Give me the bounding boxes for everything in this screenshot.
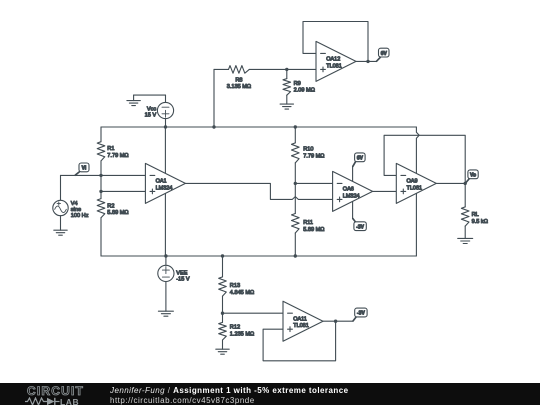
label Vcc value — [145, 106, 157, 118]
node junction R11 on rail — [294, 254, 297, 257]
wire node to OA12 plus input — [287, 68, 316, 70]
svg-text:TL081: TL081 — [407, 185, 423, 191]
svg-text:R13: R13 — [230, 283, 240, 289]
label RL value — [472, 212, 488, 225]
wire OA1 output to OA6 plus input with hop over R10/R11 column — [185, 183, 332, 199]
node junction Vcc/rail/OA1 V+ — [164, 125, 167, 128]
svg-text:OA11: OA11 — [293, 317, 307, 323]
wire Vi node from V4 to OA1 minus input — [61, 174, 146, 176]
resistor R10 — [292, 127, 300, 183]
svg-text:R8: R8 — [235, 77, 242, 83]
svg-text:-3V: -3V — [357, 311, 365, 317]
node flag -3V at OA6 V- pin — [353, 219, 367, 231]
svg-text:LM324: LM324 — [156, 185, 173, 191]
label R8 value — [227, 77, 251, 90]
resistor RL — [461, 183, 469, 238]
ground below RL — [458, 238, 473, 243]
node junction OA9 output/feedback/RL — [464, 182, 467, 185]
label R1 value — [107, 146, 128, 159]
node flag Vo at OA9 output — [465, 170, 478, 183]
node junction R13/R12/OA11- — [221, 312, 224, 315]
footer banner — [0, 383, 540, 405]
svg-text:Vi: Vi — [82, 166, 87, 172]
wire OA6 V+ pin stub — [352, 166, 354, 181]
wire OA12 feedback loop — [303, 22, 368, 62]
label V4 value — [71, 201, 89, 219]
wire OA9 output to Vo node — [436, 182, 465, 184]
svg-text:7.79 MΩ: 7.79 MΩ — [107, 153, 128, 159]
svg-text:OA6: OA6 — [343, 187, 354, 193]
svg-text:7.79 MΩ: 7.79 MΩ — [303, 153, 324, 159]
ground below R12 — [216, 349, 229, 354]
label R9 value — [294, 81, 315, 94]
svg-text:15 V: 15 V — [145, 112, 157, 118]
ground left of Vcc — [127, 95, 140, 106]
wire OA12 output — [356, 60, 377, 62]
op-amp OA9 TL081 — [396, 163, 436, 203]
svg-text:3.135 MΩ: 3.135 MΩ — [227, 84, 251, 90]
svg-text:-15 V: -15 V — [176, 276, 190, 282]
resistor R8 — [214, 66, 249, 74]
svg-text:R9: R9 — [294, 81, 301, 87]
node flag -3V at OA11 output — [353, 308, 367, 321]
voltage source VEE -15 V — [158, 256, 174, 311]
resistor R12 — [219, 313, 227, 349]
svg-text:R2: R2 — [107, 203, 114, 209]
CircuitLab logo wordmark — [27, 384, 97, 398]
node junction R8/R9/OA12+ — [285, 68, 288, 71]
resistor R11 — [292, 183, 300, 256]
footer url text — [110, 396, 255, 405]
svg-text:5.89 MΩ: 5.89 MΩ — [303, 227, 324, 233]
wire R8 to R9/OA12 node — [249, 68, 286, 70]
svg-text:TL081: TL081 — [293, 323, 309, 329]
label R13 value — [230, 283, 254, 296]
footer title text — [110, 386, 349, 395]
svg-text:6V: 6V — [357, 156, 364, 162]
svg-text:5.89 MΩ: 5.89 MΩ — [107, 210, 128, 216]
wire OA6 minus input from R10/R11 junction — [295, 182, 332, 184]
wire R13/R12 junction to OA11 minus input — [223, 312, 284, 314]
op-amp OA12 TL081 — [316, 41, 356, 81]
node junction R10 on rail — [294, 125, 297, 128]
svg-text:9.5 kΩ: 9.5 kΩ — [472, 219, 488, 225]
svg-text:Vo: Vo — [470, 173, 476, 179]
svg-text:OA1: OA1 — [156, 179, 167, 185]
svg-text:4.845 MΩ: 4.845 MΩ — [230, 290, 254, 296]
wire OA6 V- pin stub — [352, 201, 354, 218]
node flag Vi — [75, 163, 89, 175]
wire OA11 output — [323, 320, 353, 322]
op-amp OA11 TL081 — [283, 301, 323, 341]
CircuitLab logo resistor/diode glyph and LAB — [25, 397, 105, 405]
wire OA11 feedback loop output to plus input — [263, 321, 336, 361]
ground below R9 — [280, 104, 293, 109]
label R12 value — [230, 325, 254, 338]
node junction OA12 output/feedback — [366, 60, 369, 63]
svg-text:R10: R10 — [303, 147, 313, 153]
node flag 6V at OA6 V+ pin — [353, 153, 365, 167]
resistor R9 — [283, 69, 291, 104]
op-amp OA1 LM324 — [145, 163, 185, 203]
ground below VEE — [158, 311, 173, 316]
svg-text:RL: RL — [472, 212, 479, 218]
label R11 value — [303, 220, 324, 233]
svg-text:R1: R1 — [107, 146, 114, 152]
node junction R10/R11/OA6- — [294, 182, 297, 185]
wire OA9 V+ pin drop from Vcc rail with hop over feedback — [416, 127, 419, 174]
svg-text:6V: 6V — [381, 51, 388, 57]
label VEE value — [176, 270, 190, 282]
op-amp OA6 LM324 — [333, 171, 373, 211]
ground below V4 — [54, 230, 67, 235]
wire OA1 plus input from R1/R2 column — [101, 190, 145, 192]
svg-text:TL081: TL081 — [326, 63, 342, 69]
svg-text:100 Hz: 100 Hz — [71, 213, 89, 219]
svg-text:LM324: LM324 — [343, 193, 360, 199]
node junction VEE on rail — [164, 254, 167, 257]
svg-text:1.235 MΩ: 1.235 MΩ — [230, 331, 254, 337]
node junction R8 branch on rail — [212, 125, 215, 128]
wire OA9 V- pin rise from VEE rail — [415, 193, 417, 256]
node junction Vi/R1/OA1- — [99, 174, 102, 177]
svg-text:R11: R11 — [303, 220, 313, 226]
svg-text:OA9: OA9 — [407, 179, 418, 185]
svg-text:OA12: OA12 — [326, 57, 340, 63]
svg-text:2.09 MΩ: 2.09 MΩ — [294, 88, 315, 94]
resistor R2 — [97, 175, 105, 256]
wire Vcc rail (node VCC) — [101, 126, 416, 128]
voltage source V4 sine 100 Hz — [53, 175, 68, 230]
node junction R13 on rail — [221, 254, 224, 257]
wire OA1 power pins column — [164, 127, 166, 256]
resistor R1 — [97, 127, 105, 175]
resistor R13 — [219, 256, 227, 313]
svg-text:-3V: -3V — [356, 224, 364, 230]
node flag 6V at OA12 output — [377, 48, 389, 61]
wire VEE rail (node VEE) — [101, 255, 416, 257]
wire R8 branch from Vcc rail — [213, 69, 215, 127]
node junction R2/OA1+ — [99, 190, 102, 193]
node junction OA11 output/feedback — [334, 320, 337, 323]
label R2 value — [107, 203, 128, 216]
voltage source Vcc 15 V — [134, 95, 174, 127]
label R10 value — [303, 147, 324, 160]
wire OA9 feedback loop minus input to output — [384, 135, 465, 183]
svg-text:R12: R12 — [230, 325, 240, 331]
wire OA6 output to OA9 plus input — [373, 190, 397, 192]
